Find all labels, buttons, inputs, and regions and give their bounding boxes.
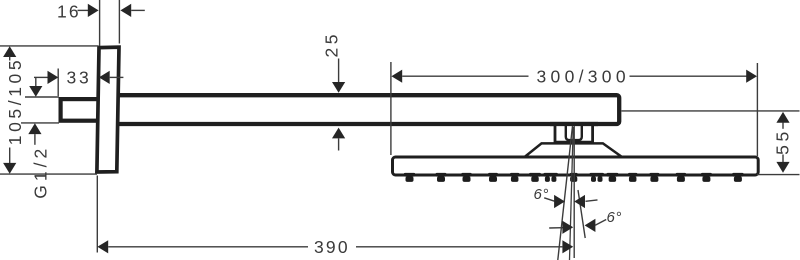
dimension 390 right arrow xyxy=(562,240,573,253)
dimension 16 left arrow xyxy=(88,4,99,17)
dimension 55 top arrow xyxy=(776,112,789,123)
spray line left 6deg xyxy=(558,126,573,260)
svg-text:300/300: 300/300 xyxy=(537,66,630,86)
dimension 25 upper arrow stem xyxy=(338,59,340,83)
dimension 105/105 line upper segment xyxy=(9,57,11,61)
extension line plate top xyxy=(0,45,99,47)
extension line arm axis xyxy=(622,110,800,112)
wall stub pipe xyxy=(61,99,99,121)
angle 6deg upper left arrow xyxy=(554,195,565,208)
angle 6deg lower left arrow xyxy=(562,221,573,234)
extension line pipe end xyxy=(57,69,59,97)
angle 6deg upper right leader xyxy=(586,200,598,201)
svg-text:6°: 6° xyxy=(534,186,549,203)
svg-text:6°: 6° xyxy=(607,209,622,226)
dimension 300/300 right arrow xyxy=(746,70,757,83)
extension line pipe top face xyxy=(25,96,59,98)
dimension 390 line right segment xyxy=(356,246,562,248)
extension line wall plate front face xyxy=(99,0,101,46)
G1/2 upper arrow stem xyxy=(35,77,37,86)
dimension 25 lower arrow xyxy=(332,128,345,139)
dimension 55 line lower segment xyxy=(782,155,784,163)
nozzle row xyxy=(404,173,744,182)
dimension 300/300 line right segment xyxy=(630,75,748,77)
G1/2 upper arrow xyxy=(29,86,42,97)
spray segment right 6deg xyxy=(578,190,585,238)
svg-text:390: 390 xyxy=(314,237,350,257)
escutcheon trapezoid xyxy=(525,143,622,156)
shower head plate xyxy=(393,157,759,175)
angle 6deg upper right arrow xyxy=(574,195,585,208)
dimension 105/105 top arrow xyxy=(3,46,16,57)
extension line wall plate back face xyxy=(118,0,120,44)
spray axis slight tilt line xyxy=(570,127,574,260)
ball joint collar xyxy=(555,124,593,142)
svg-text:G1/2: G1/2 xyxy=(31,145,51,199)
dimension 390 line left segment xyxy=(108,246,308,248)
svg-text:16: 16 xyxy=(57,2,81,22)
dimension 300/300 left arrow xyxy=(391,70,402,83)
svg-text:55: 55 xyxy=(772,128,792,155)
extension line head bottom xyxy=(757,174,800,176)
wall plate xyxy=(97,47,119,172)
G1/2 lower arrow xyxy=(28,123,41,134)
dimension 33 right arrow xyxy=(99,71,110,84)
dimension 25 upper arrow xyxy=(332,82,345,93)
dimension 105/105 bottom arrow xyxy=(3,163,16,174)
dimension 25 lower arrow stem xyxy=(338,138,340,150)
angle 6deg upper left leader xyxy=(544,198,554,201)
extension line plate bottom xyxy=(0,173,97,175)
dimension 390 left arrow xyxy=(97,240,108,253)
dimension 105/105 line lower segment xyxy=(9,148,11,164)
dimension 33 left leader line xyxy=(34,76,48,78)
G1/2 lower arrow stem xyxy=(34,134,36,145)
svg-text:105/105: 105/105 xyxy=(5,57,25,145)
extension line head left face xyxy=(390,62,392,155)
svg-text:25: 25 xyxy=(322,31,342,58)
extension line pipe bottom face xyxy=(21,122,59,124)
extension line head right face xyxy=(756,63,758,156)
arm bottom edge over collar xyxy=(550,122,598,126)
dimension 33 right leader line xyxy=(110,76,124,78)
extension line wall face down xyxy=(96,176,98,253)
dimension 16 left leader line xyxy=(78,9,89,11)
angle 6deg lower right arrow xyxy=(585,219,596,232)
dimension 16 right leader line xyxy=(131,9,145,11)
dimension 300/300 line left segment xyxy=(402,75,528,77)
angle 6deg lower left leader xyxy=(549,227,562,229)
dimension 16 right arrow xyxy=(120,4,131,17)
shower arm xyxy=(117,95,619,124)
dimension 55 line upper segment xyxy=(782,123,784,129)
center line xyxy=(573,126,575,258)
angle 6deg lower right leader xyxy=(595,220,606,226)
dimension 33 left arrow xyxy=(48,71,59,84)
svg-text:33: 33 xyxy=(67,68,92,88)
dimension 55 bottom arrow xyxy=(776,162,789,173)
joint cylinder xyxy=(566,125,582,140)
